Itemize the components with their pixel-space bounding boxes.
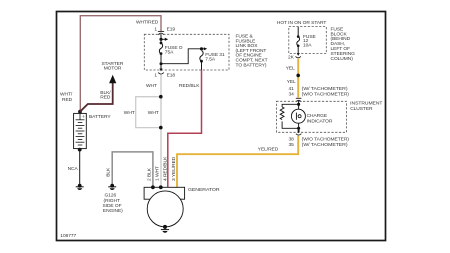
node (top of loop) xyxy=(159,95,163,99)
svg-text:YEL: YEL xyxy=(287,79,296,85)
svg-text:BATTERY: BATTERY xyxy=(89,114,111,120)
svg-text:1: 1 xyxy=(154,72,157,78)
starter motor arrow xyxy=(109,75,116,83)
svg-text:E19: E19 xyxy=(167,27,176,33)
fuse 12 xyxy=(297,35,300,38)
node/branch arrow at fuse 31 top xyxy=(200,47,203,50)
border frame xyxy=(57,12,386,241)
battery xyxy=(78,110,82,114)
fuse & fusible link box (dashed) xyxy=(144,34,229,70)
ground (generator) xyxy=(163,225,167,229)
connector 2K xyxy=(297,53,300,56)
svg-text:2K: 2K xyxy=(288,55,295,61)
fuse block box (dashed) xyxy=(289,27,327,54)
node on YEL wire xyxy=(296,74,300,78)
resistor xyxy=(280,107,284,119)
svg-text:RED: RED xyxy=(62,97,73,103)
svg-text:ENGINE): ENGINE) xyxy=(103,208,123,214)
connector E18 xyxy=(159,69,162,72)
svg-text:RED/BLK: RED/BLK xyxy=(179,83,200,89)
ground G126 xyxy=(110,184,114,188)
svg-text:CLUSTER: CLUSTER xyxy=(350,106,373,112)
svg-text:(W/ TACHOMETER): (W/ TACHOMETER) xyxy=(302,86,348,92)
wire BLK/RED (battery to starter motor) xyxy=(80,83,113,112)
wire into fuse 12 xyxy=(297,27,299,37)
connector at cluster bottom xyxy=(297,131,300,134)
wire YEL/RED (cluster to generator pin 3) xyxy=(177,136,298,188)
svg-text:WHT/RED: WHT/RED xyxy=(136,20,159,26)
svg-text:INSTRUMENT: INSTRUMENT xyxy=(350,101,382,107)
wire RED/BLK (fuse 31 to generator pin 4) xyxy=(168,70,202,187)
svg-text:7.5A: 7.5A xyxy=(205,57,216,63)
svg-text:2 BLK: 2 BLK xyxy=(147,167,153,181)
svg-text:COLUMN): COLUMN) xyxy=(331,56,354,62)
svg-text:HOT IN ON OR START: HOT IN ON OR START xyxy=(277,20,327,26)
pin node 1 xyxy=(159,185,163,189)
connector at cluster top xyxy=(296,98,302,102)
svg-text:G126: G126 xyxy=(105,193,117,199)
svg-text:(W/O TACHOMETER): (W/O TACHOMETER) xyxy=(302,92,350,98)
label fuse & fusible link box text xyxy=(236,34,268,69)
fuse O xyxy=(160,35,162,43)
svg-text:1 WHT: 1 WHT xyxy=(155,166,161,181)
svg-text:YEL/RED: YEL/RED xyxy=(258,147,279,153)
svg-text:SIDE OF: SIDE OF xyxy=(103,203,122,209)
svg-text:35: 35 xyxy=(289,142,295,148)
svg-text:NCA: NCA xyxy=(68,166,79,172)
svg-text:WHT: WHT xyxy=(148,110,159,116)
label G126 (RIGHT SIDE OF ENGINE) xyxy=(103,193,124,215)
wire fuse 31 to box edge xyxy=(201,61,203,70)
svg-text:E18: E18 xyxy=(167,72,176,78)
svg-text:WHT: WHT xyxy=(146,83,157,89)
svg-text:10A: 10A xyxy=(303,43,312,49)
node bottom xyxy=(297,127,300,130)
svg-text:RED: RED xyxy=(100,94,111,100)
instrument cluster box (dashed) xyxy=(276,101,346,132)
svg-text:INDICATOR: INDICATOR xyxy=(307,118,333,124)
svg-text:41: 41 xyxy=(289,86,295,92)
label fuse block text xyxy=(331,26,356,61)
wire fuse O to E18 with branch to fuse 31 xyxy=(160,54,162,70)
wire fuse 12 to connector 2K xyxy=(297,46,299,54)
svg-text:YEL: YEL xyxy=(286,66,295,72)
svg-text:WHT: WHT xyxy=(124,110,135,116)
fuse 31 xyxy=(200,51,203,62)
svg-text:CHARGE: CHARGE xyxy=(307,113,328,119)
svg-text:(RIGHT: (RIGHT xyxy=(104,198,120,204)
charge indicator lamp circuit xyxy=(298,100,300,109)
svg-text:(W/ TACHOMETER): (W/ TACHOMETER) xyxy=(302,142,348,148)
svg-text:75A: 75A xyxy=(165,49,174,55)
svg-text:106777: 106777 xyxy=(60,233,76,239)
WHT parallel loop xyxy=(136,97,161,128)
svg-text:34: 34 xyxy=(289,92,295,98)
connector E19 xyxy=(158,31,164,34)
node/branch arrow below E19 xyxy=(159,38,162,41)
wire WHT/RED (battery to fuse box E19) xyxy=(80,16,161,111)
lamp (charge indicator) xyxy=(291,109,305,123)
wire NCA (battery to ground) xyxy=(78,148,82,152)
svg-text:4 RED/BLK: 4 RED/BLK xyxy=(163,156,169,181)
node top xyxy=(297,103,300,106)
pin node 2 xyxy=(151,185,155,189)
svg-text:BLK: BLK xyxy=(105,167,111,177)
svg-text:GENERATOR: GENERATOR xyxy=(188,187,220,193)
wire BLK (generator pin 2 to G126) xyxy=(112,152,153,187)
svg-text:TO BATTERY): TO BATTERY) xyxy=(236,62,267,68)
svg-text:(W/O TACHOMETER): (W/O TACHOMETER) xyxy=(302,137,350,143)
svg-text:3 YEL/RED: 3 YEL/RED xyxy=(171,156,177,181)
generator circle xyxy=(147,191,183,227)
ground (battery) xyxy=(78,184,82,188)
generator connector box xyxy=(144,187,185,199)
svg-text:1: 1 xyxy=(154,27,157,33)
svg-text:MOTOR: MOTOR xyxy=(104,66,122,72)
svg-text:WHT/: WHT/ xyxy=(60,92,73,98)
node (bottom of loop) xyxy=(159,126,163,130)
wire WHT (E18 to generator pin 1) xyxy=(160,75,162,188)
wire YEL (2K to cluster) xyxy=(297,59,299,98)
svg-text:38: 38 xyxy=(289,137,295,143)
